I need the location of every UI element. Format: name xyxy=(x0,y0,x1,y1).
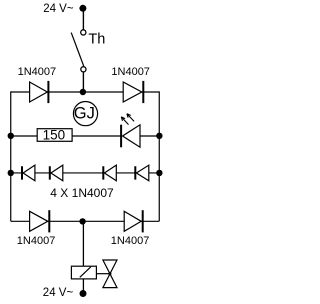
solenoid coil box xyxy=(71,266,96,279)
svg-text:24 V~: 24 V~ xyxy=(43,3,74,15)
junction dot top rail xyxy=(80,89,86,95)
valve triangle bottom xyxy=(103,274,117,288)
diode D5 bottom-left xyxy=(30,211,48,231)
switch Th lower contact xyxy=(81,67,86,72)
GJ circle xyxy=(73,102,97,126)
svg-text:1N4007: 1N4007 xyxy=(111,235,150,247)
junction dot row3 right xyxy=(156,170,162,176)
right rail wire xyxy=(158,91,160,221)
junction dot row2 left xyxy=(8,133,14,139)
terminal dot 24V top xyxy=(79,5,86,12)
valve junction dot xyxy=(108,272,111,275)
valve link wire xyxy=(96,273,110,275)
svg-text:4 X 1N4007: 4 X 1N4007 xyxy=(50,186,114,200)
wire LED to right rail xyxy=(140,135,159,137)
wire from switch to top rail xyxy=(82,72,84,92)
svg-text:1N4007: 1N4007 xyxy=(111,66,150,78)
resistor 150 xyxy=(37,129,72,142)
row4 wire xyxy=(11,220,160,222)
LED cathode bar xyxy=(120,125,122,148)
diode S1 (row3 #1) xyxy=(21,166,23,179)
switch Th arm xyxy=(71,33,84,66)
svg-text:24 V~: 24 V~ xyxy=(43,287,74,299)
diode D1 top-left xyxy=(30,82,48,102)
left rail wire xyxy=(10,91,12,221)
svg-text:Th: Th xyxy=(88,32,105,48)
svg-text:1N4007: 1N4007 xyxy=(18,66,57,78)
wire row4 to coil xyxy=(82,221,84,266)
svg-text:GJ: GJ xyxy=(74,104,95,122)
wire from top terminal to switch xyxy=(82,8,84,29)
wire resistor to LED xyxy=(72,135,121,137)
junction dot row4 center xyxy=(79,218,85,224)
terminal dot 24V bottom xyxy=(80,290,87,297)
coil diagonal xyxy=(80,267,91,277)
diode D6 bottom-right xyxy=(124,211,141,231)
top rail wire xyxy=(11,91,160,93)
LED arrow 1 xyxy=(121,117,128,125)
junction dot row3 left xyxy=(8,170,14,176)
diode S3 (row3 #3) xyxy=(102,166,104,179)
junction dot row2 right xyxy=(156,133,162,139)
valve triangle top xyxy=(103,260,117,274)
wire row2 left xyxy=(11,135,37,137)
wire coil to bottom terminal xyxy=(82,279,84,293)
diode S2 (row3 #2) xyxy=(49,166,51,179)
switch Th upper contact xyxy=(81,30,86,35)
svg-text:1N4007: 1N4007 xyxy=(17,235,56,247)
LED triangle xyxy=(123,125,141,147)
svg-text:150: 150 xyxy=(43,128,66,143)
diode D2 top-right xyxy=(123,82,142,102)
LED arrow 2 xyxy=(127,114,134,122)
wire row3 xyxy=(11,172,160,174)
diode S4 (row3 #4) xyxy=(134,166,136,179)
